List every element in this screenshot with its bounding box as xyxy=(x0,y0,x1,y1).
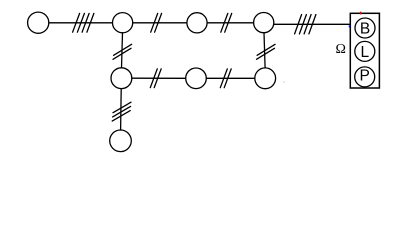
node N1 (top-left circle) xyxy=(28,12,49,33)
node N4 (top row, fourth circle) xyxy=(254,13,274,33)
wire V1 (vertical, N2 down to M1) xyxy=(122,33,123,68)
wire W2 (N2 to N3) xyxy=(133,22,187,24)
faint stray dot artifact xyxy=(283,81,284,84)
conductor tick marks (2) on wire V1 xyxy=(113,44,132,59)
node M2 (middle row, center circle) xyxy=(186,68,207,89)
node N2 (top row, second circle) xyxy=(113,13,133,33)
conductor tick marks (2) on wire W6 xyxy=(220,69,231,88)
wire W1 (N1 to N2) xyxy=(49,22,113,24)
wire W5 (M1 to M2) xyxy=(132,77,186,79)
conductor tick marks (2) on wire V2 xyxy=(257,44,276,59)
terminal B circle xyxy=(355,18,375,38)
svg-text:B: B xyxy=(360,20,370,37)
wire W3 (N3 to N4) xyxy=(207,22,253,24)
terminal L circle xyxy=(355,41,375,61)
wire W4 (N4 to terminal box) xyxy=(274,23,350,25)
red marker dot on terminal box top edge xyxy=(360,12,361,15)
conductor tick marks (2) on wire W2 xyxy=(151,13,162,32)
wire V2 (vertical, N4 down to M3) xyxy=(264,33,265,68)
conductor tick marks (3) on wire V3 xyxy=(112,102,131,121)
conductor tick marks (4) on wire W4 xyxy=(295,15,316,34)
wire V3 (vertical, M1 down to N5) xyxy=(120,89,123,130)
terminal box outline xyxy=(350,13,379,88)
node N5 (bottom circle) xyxy=(110,130,132,152)
svg-text:L: L xyxy=(360,44,369,61)
node N3 (top row, third circle) xyxy=(187,13,207,33)
svg-text:P: P xyxy=(360,67,370,84)
svg-text:Ω: Ω xyxy=(336,42,346,57)
node M3 (middle row, right circle) xyxy=(255,68,276,89)
conductor tick marks (2) on wire W3 xyxy=(221,13,232,32)
conductor tick marks (4) on wire W1 xyxy=(73,13,94,32)
terminal P circle xyxy=(355,67,375,87)
conductor tick marks (2) on wire W5 xyxy=(150,69,161,88)
blue marker dot at wire-to-box junction xyxy=(349,26,351,28)
wire W6 (M2 to M3) xyxy=(206,77,254,79)
node M1 (middle row, left circle) xyxy=(111,68,132,89)
